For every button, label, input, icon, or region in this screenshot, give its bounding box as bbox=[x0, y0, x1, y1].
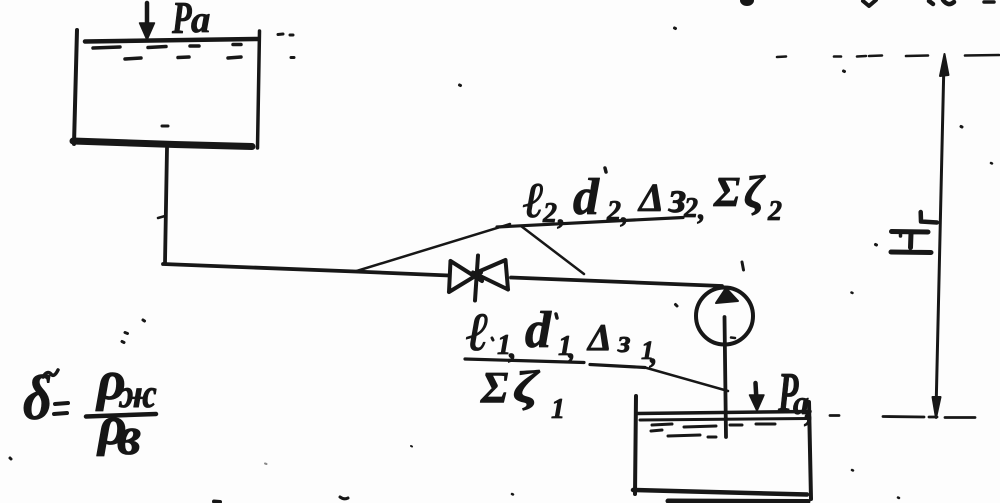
lower tank right wall bbox=[809, 402, 811, 499]
leader line left (label 2 to pipe) bbox=[355, 224, 510, 272]
noise dot b bbox=[675, 27, 676, 31]
svg-text:Δ: Δ bbox=[637, 175, 664, 220]
pump triangle bbox=[716, 288, 738, 303]
cut off glyph dash bbox=[984, 0, 994, 4]
cut off glyphs 13 bbox=[929, 0, 954, 4]
noise dot l bbox=[852, 469, 853, 472]
svg-text:1: 1 bbox=[551, 394, 565, 425]
Pa label (lower tank) bbox=[777, 361, 814, 429]
tick above pump bbox=[742, 262, 744, 270]
svg-text:Σ: Σ bbox=[480, 363, 508, 412]
svg-text:ζ: ζ bbox=[513, 362, 541, 412]
H dimension line bbox=[936, 60, 944, 412]
H dimension top arrowhead bbox=[940, 54, 949, 76]
lower tank left wall bbox=[635, 396, 636, 494]
bottom datum dashed line bbox=[830, 416, 975, 418]
faint dot bbox=[265, 463, 267, 466]
Pa arrow (upper tank) bbox=[145, 3, 150, 28]
svg-text:ℓ: ℓ bbox=[466, 302, 489, 362]
label 1 underline bbox=[465, 359, 584, 363]
dark line below lower tank bbox=[668, 499, 808, 503]
pump suction vertical pipe bbox=[725, 317, 727, 437]
upper tank water surface line bbox=[85, 39, 258, 42]
noise dot h bbox=[852, 291, 853, 294]
upper tank right wall bbox=[258, 31, 260, 148]
svg-text:в: в bbox=[117, 406, 141, 466]
noise dot f bbox=[876, 243, 877, 247]
formula equals bbox=[54, 403, 68, 414]
leader line right (label 2 to pipe) bbox=[521, 226, 584, 274]
upper tank left wall bbox=[74, 30, 77, 144]
svg-text:d: d bbox=[525, 302, 552, 359]
lower tank water line bbox=[637, 412, 810, 414]
upper tank bottom bbox=[73, 141, 252, 147]
suction pipe horizontal (tank to valve) bbox=[163, 264, 449, 276]
H subscript g rotated bbox=[921, 212, 937, 223]
svg-text:Σ: Σ bbox=[713, 170, 740, 216]
noise dot k bbox=[512, 493, 513, 496]
svg-text:з: з bbox=[617, 323, 630, 359]
small mark inside upper tank bbox=[162, 125, 168, 128]
H dimension bottom arrowhead bbox=[933, 397, 941, 418]
noise dot n bbox=[411, 445, 412, 448]
vertical pipe from upper tank bbox=[165, 148, 167, 263]
valve bowtie bbox=[449, 260, 508, 292]
lower tank water line 2 bbox=[640, 419, 809, 421]
svg-text:2: 2 bbox=[683, 193, 698, 224]
noise dot e bbox=[991, 162, 992, 165]
formula rho zh numerator bbox=[95, 350, 157, 416]
label 1 underline second segment bbox=[590, 365, 645, 368]
top datum dashed line bbox=[777, 55, 999, 57]
pump circle bbox=[696, 288, 753, 345]
lower tank water dashes bbox=[652, 424, 775, 427]
noise dot c bbox=[844, 70, 845, 74]
noise dot i bbox=[10, 458, 11, 459]
dot above d (label 2) bbox=[605, 168, 606, 172]
lower tank bottom bbox=[633, 490, 807, 495]
noise dot a bbox=[460, 84, 461, 88]
cut off glyphs at top edge bbox=[740, 0, 754, 6]
svg-text:,: , bbox=[620, 196, 629, 229]
Pa label (upper tank) bbox=[171, 0, 210, 43]
svg-text:2: 2 bbox=[767, 196, 782, 227]
formula delta top flourish bbox=[43, 370, 58, 377]
H label rotated bbox=[891, 232, 931, 253]
svg-text:Δ: Δ bbox=[586, 317, 612, 359]
noise mark j bbox=[340, 497, 348, 499]
label sum zeta 1 bbox=[480, 362, 565, 425]
label l2 d2 dz2 sum zeta2 bbox=[523, 166, 782, 231]
Pa arrow (lower tank) bbox=[756, 383, 757, 401]
svg-text:,: , bbox=[697, 193, 706, 226]
svg-text:ζ: ζ bbox=[744, 166, 766, 217]
formula rho v denominator bbox=[96, 395, 141, 466]
svg-text:,: , bbox=[567, 332, 576, 365]
upper tank water dashes row 1 bbox=[93, 45, 241, 49]
svg-text:,: , bbox=[557, 198, 566, 231]
pipe valve to pump bbox=[511, 278, 722, 287]
tick inside pump circle bbox=[731, 336, 735, 339]
H label small stub bbox=[899, 234, 903, 237]
noise dot g bbox=[676, 305, 678, 307]
valve stem bbox=[475, 256, 478, 301]
svg-text:P: P bbox=[171, 0, 192, 43]
dots right of upper tank bbox=[278, 34, 294, 58]
cut off glyph v bbox=[863, 0, 876, 6]
dot above d (label 1) bbox=[556, 314, 557, 318]
formula fraction bar bbox=[86, 414, 156, 417]
formula delta bbox=[23, 363, 52, 434]
label l1 d1 dz1 bbox=[466, 302, 658, 370]
upper tank water dashes row 2 bbox=[125, 57, 241, 59]
dots above formula bbox=[122, 320, 145, 343]
leader line (label 1 to suction pipe) bbox=[645, 368, 728, 392]
noise blob bottom left bbox=[214, 500, 220, 503]
label 2 underline bbox=[497, 218, 683, 228]
svg-text:a: a bbox=[191, 0, 210, 41]
tick on vertical pipe bbox=[158, 216, 165, 218]
dot after l1 bbox=[492, 338, 493, 340]
svg-text:,: , bbox=[649, 337, 658, 370]
svg-text:ℓ: ℓ bbox=[523, 172, 544, 228]
noise dot m bbox=[898, 496, 899, 499]
svg-text:d: d bbox=[573, 169, 600, 226]
noise dot d bbox=[961, 125, 962, 129]
